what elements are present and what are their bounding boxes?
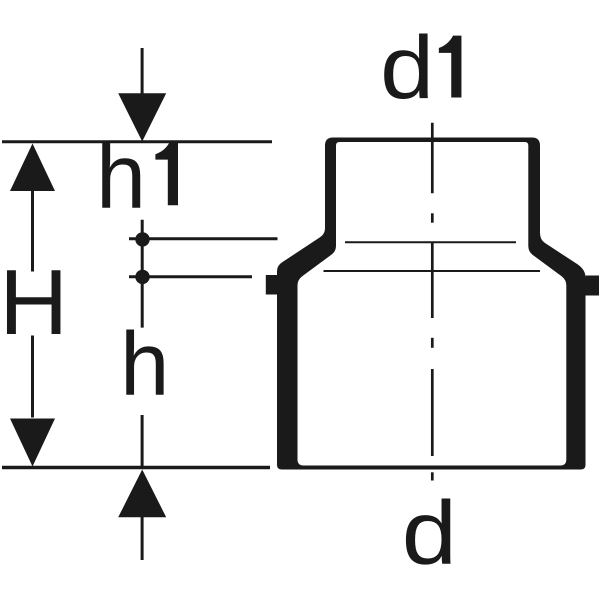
reference dot lower [135, 270, 149, 284]
centerline dash 1 [431, 213, 434, 222]
h1 dimension top extension line [141, 48, 144, 94]
H dimension arrow up [10, 144, 55, 192]
svg-text:d: d [380, 18, 434, 117]
reference stub line lower [129, 275, 252, 278]
h dimension lower extension line [141, 517, 144, 560]
label d1 (digit 1) [439, 36, 462, 98]
h dimension arrow up [118, 470, 166, 518]
socket depth line d (interior) [324, 270, 541, 272]
vertical link line between dots [141, 220, 144, 328]
svg-text:H: H [0, 250, 68, 353]
centerline segment 3 [431, 369, 434, 456]
label h1 (digit 1) [155, 142, 178, 205]
h1 dimension arrow down [118, 93, 166, 141]
svg-text:h: h [120, 313, 169, 414]
centerline segment 2 [431, 243, 434, 318]
H dimension lower extension line [31, 336, 34, 418]
h dimension upper extension line [141, 415, 144, 466]
H dimension arrow down [10, 419, 55, 467]
dimension line bottom [2, 466, 270, 470]
fitting body (reducer outline) [266, 138, 599, 470]
centerline dash 3 [431, 472, 434, 480]
socket depth line d1 (interior) [345, 241, 516, 243]
H dimension upper extension line [31, 190, 34, 272]
svg-text:h: h [96, 125, 146, 228]
centerline segment 1 [431, 123, 434, 194]
dimension line top [2, 140, 272, 143]
reference dot upper [135, 232, 149, 246]
reference stub line upper [129, 237, 278, 240]
centerline dash 2 [431, 338, 434, 348]
svg-text:d: d [402, 483, 457, 584]
